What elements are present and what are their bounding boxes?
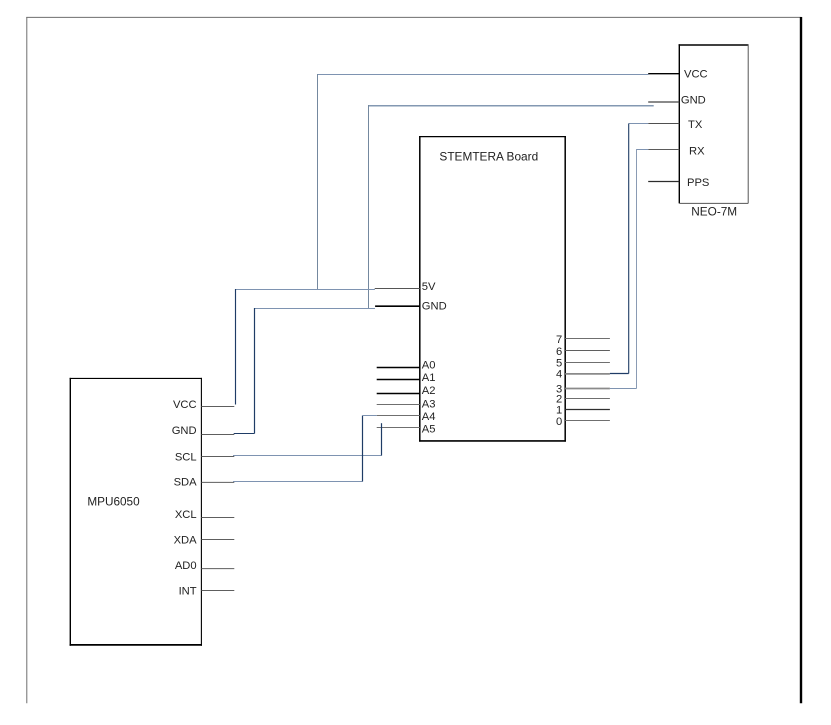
svg-text:GND: GND [172,425,197,437]
svg-text:SDA: SDA [174,477,198,489]
MPU6050 pin XDA stub [201,539,234,541]
wire SDA horizontal run [233,481,363,483]
wire TX jog to pin 4 [610,373,629,375]
wire TX vertical drop [628,124,630,374]
wire RX jog at NEO [637,149,649,151]
svg-text:A4: A4 [422,411,436,423]
STEMTERA pin A5 stub [377,427,420,429]
svg-text:4: 4 [556,369,562,381]
svg-text:0: 0 [556,416,562,428]
svg-text:GND: GND [681,95,706,107]
wire SCL vertical to A5 [381,423,383,455]
wire NEO VCC vertical drop [317,74,319,290]
STEMTERA pin A1 stub [377,379,420,381]
STEMTERA pin 4 stub [565,373,610,375]
svg-text:5V: 5V [422,281,436,293]
NEO-7M pin RX stub [648,149,679,151]
svg-text:RX: RX [689,145,705,157]
svg-text:STEMTERA Board: STEMTERA Board [439,150,538,164]
NEO-7M pin TX stub [648,123,679,125]
svg-text:TX: TX [688,119,703,131]
MPU6050 pin VCC stub [201,406,234,408]
svg-text:VCC: VCC [684,69,708,81]
svg-text:A3: A3 [422,399,436,411]
wire RX vertical drop [636,149,638,389]
wire TX jog at NEO [629,123,649,125]
wire SDA vertical to A4 [362,416,364,482]
MPU6050 pin SCL stub [201,456,234,458]
page border left [26,17,28,703]
NEO-7M pin VCC stub [648,73,679,75]
MPU6050 pin INT stub [201,590,234,592]
STEMTERA pin A2 stub [377,393,420,395]
svg-text:SCL: SCL [175,452,197,464]
svg-text:7: 7 [556,334,562,346]
STEMTERA pin A4 stub [377,415,420,417]
svg-text:PPS: PPS [687,177,709,189]
svg-text:A2: A2 [422,385,436,397]
svg-text:NEO-7M: NEO-7M [691,205,737,219]
STEMTERA pin 1 stub [565,409,610,411]
wire SCL horizontal run [233,455,382,457]
STEMTERA pin 5V stub [375,288,420,290]
svg-text:GND: GND [422,300,447,312]
wire SDA jog to A4 stub [363,415,377,417]
STEMTERA pin 2 stub [565,398,610,400]
wire NEO GND horizontal run [368,105,654,107]
MPU6050 pin XCL stub [201,517,234,519]
svg-text:6: 6 [556,346,562,358]
svg-text:MPU6050: MPU6050 [87,495,140,508]
svg-text:5: 5 [556,357,562,369]
wire NEO VCC horizontal run [317,74,649,76]
STEMTERA pin GND stub [375,305,420,307]
svg-text:VCC: VCC [173,399,197,411]
svg-text:1: 1 [556,405,562,417]
sensor MPU6050 body [70,378,202,646]
MPU6050 pin SDA stub [201,481,234,483]
board STEMTERA body [419,136,566,442]
wire RX jog to pin 3 [610,388,637,390]
svg-text:XCL: XCL [175,509,197,521]
MPU6050 pin GND stub [201,434,234,436]
STEMTERA pin A0 stub [377,367,420,369]
svg-text:AD0: AD0 [175,560,197,572]
wire NEO GND vertical drop [368,105,370,309]
svg-text:XDA: XDA [174,534,198,546]
STEMTERA pin 0 stub [565,420,610,422]
wire MPU VCC vertical riser [235,289,237,405]
wire MPU GND vertical riser [254,308,256,434]
svg-text:A5: A5 [422,424,436,436]
svg-text:INT: INT [179,586,197,598]
STEMTERA pin 3 stub [565,388,610,390]
wire 5V bus horizontal [235,289,375,291]
STEMTERA pin A3 stub [377,404,420,406]
module NEO-7M body [679,44,749,203]
wire GND bus horizontal [255,308,376,310]
page border top [26,16,801,18]
svg-text:A0: A0 [422,360,436,372]
STEMTERA pin 5 stub [565,362,610,364]
NEO-7M pin GND stub [648,101,679,103]
MPU6050 pin AD0 stub [201,568,234,570]
wire MPU GND jog [234,433,255,435]
STEMTERA pin 6 stub [565,350,610,352]
NEO-7M pin PPS stub [648,181,679,183]
STEMTERA pin 7 stub [565,338,610,340]
svg-text:A1: A1 [422,372,436,384]
page border right [800,17,802,703]
